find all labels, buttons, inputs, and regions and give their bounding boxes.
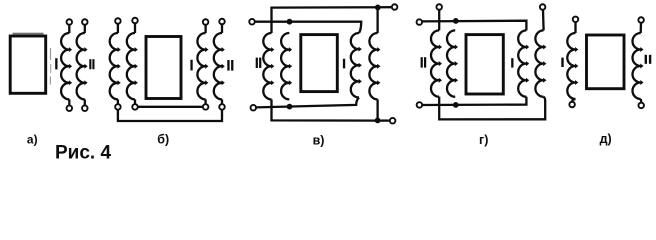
svg-text:б): б) <box>157 133 169 147</box>
svg-text:д): д) <box>600 132 612 146</box>
svg-text:г): г) <box>479 133 488 147</box>
svg-text:Рис. 4: Рис. 4 <box>55 142 111 162</box>
svg-text:в): в) <box>313 133 325 147</box>
svg-text:а): а) <box>27 133 38 147</box>
